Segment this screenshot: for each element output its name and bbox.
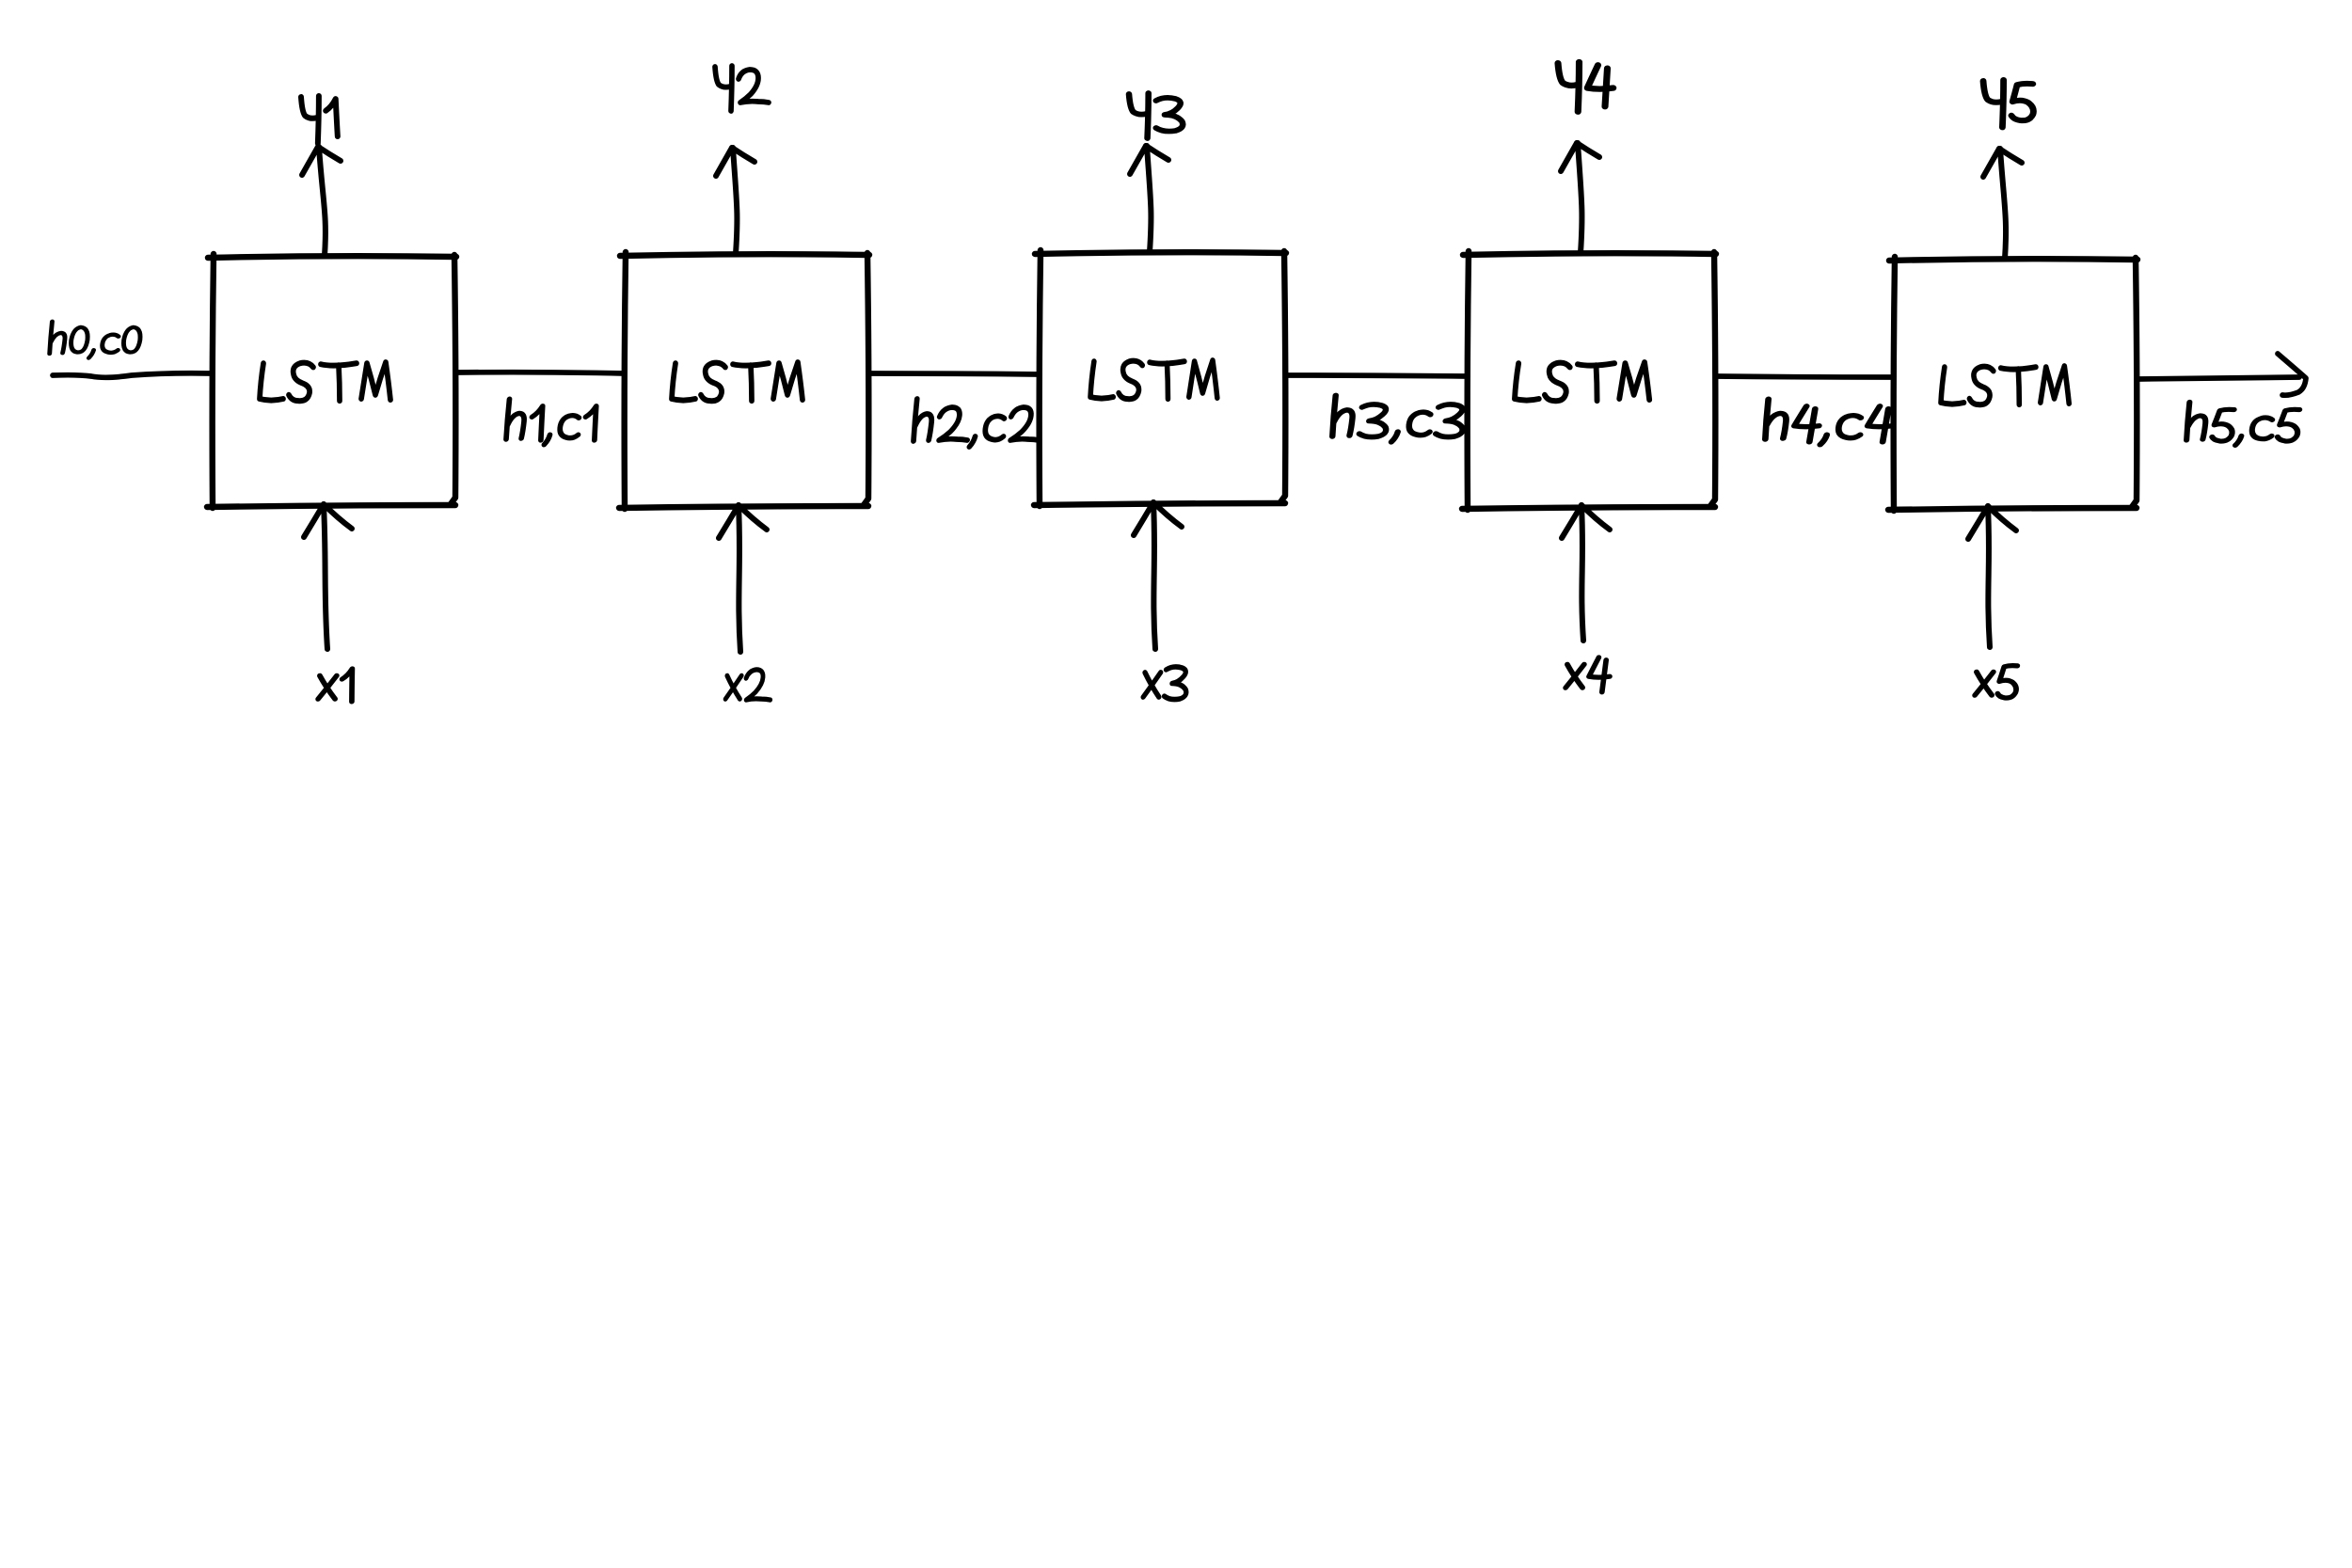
output arrow y3 from U3 top — [1130, 146, 1168, 252]
wire h1,c1 (U1 to U2) — [456, 372, 625, 373]
label x4 — [1565, 657, 1612, 692]
label h3,c3 — [1331, 395, 1467, 441]
label x2 — [725, 670, 772, 700]
label LSTM in U2 — [672, 362, 803, 401]
wire h3,c3 (U3 to U4) — [1286, 375, 1468, 376]
wire h4,c4 (U4 to U5) — [1716, 376, 1894, 377]
label h2,c2 — [912, 399, 1042, 447]
wire h0,c0 input line — [53, 373, 213, 378]
output arrow y2 from U2 top — [716, 148, 755, 254]
LSTM unit box U4 — [1462, 251, 1716, 510]
label LSTM in U4 — [1515, 362, 1649, 401]
output arrow y1 from U1 top — [302, 147, 341, 256]
wire h2,c2 (U2 to U3) — [869, 373, 1040, 374]
label h4,c4 — [1764, 399, 1896, 444]
label h1,c1 — [504, 399, 598, 444]
LSTM unit box U3 — [1034, 250, 1286, 506]
label LSTM in U1 — [260, 362, 390, 401]
label LSTM in U3 — [1090, 360, 1217, 399]
LSTM unit box U1 — [207, 254, 456, 508]
wire h5,c5 output arrow — [2137, 354, 2306, 395]
input arrow x1 into U1 bottom — [304, 504, 352, 649]
label x3 — [1143, 667, 1188, 700]
label y2 — [715, 66, 769, 111]
input arrow x5 into U5 bottom — [1968, 506, 2016, 647]
input arrow x2 into U2 bottom — [719, 505, 767, 652]
label x5 — [1975, 666, 2018, 698]
label y3 — [1129, 93, 1183, 138]
label x1 — [318, 669, 354, 702]
label h0,c0 — [48, 322, 142, 358]
input arrow x4 into U4 bottom — [1562, 505, 1610, 641]
label LSTM in U5 — [1941, 366, 2069, 404]
input arrow x3 into U3 bottom — [1134, 502, 1182, 649]
label y5 — [1983, 80, 2033, 127]
label y1 — [301, 96, 338, 143]
LSTM unit box U5 — [1888, 257, 2137, 511]
output arrow y5 from U5 top — [1983, 149, 2022, 259]
output arrow y4 from U4 top — [1561, 143, 1599, 253]
label h5,c5 — [2185, 403, 2301, 446]
LSTM unit box U2 — [619, 252, 869, 509]
label y4 — [1558, 62, 1613, 112]
